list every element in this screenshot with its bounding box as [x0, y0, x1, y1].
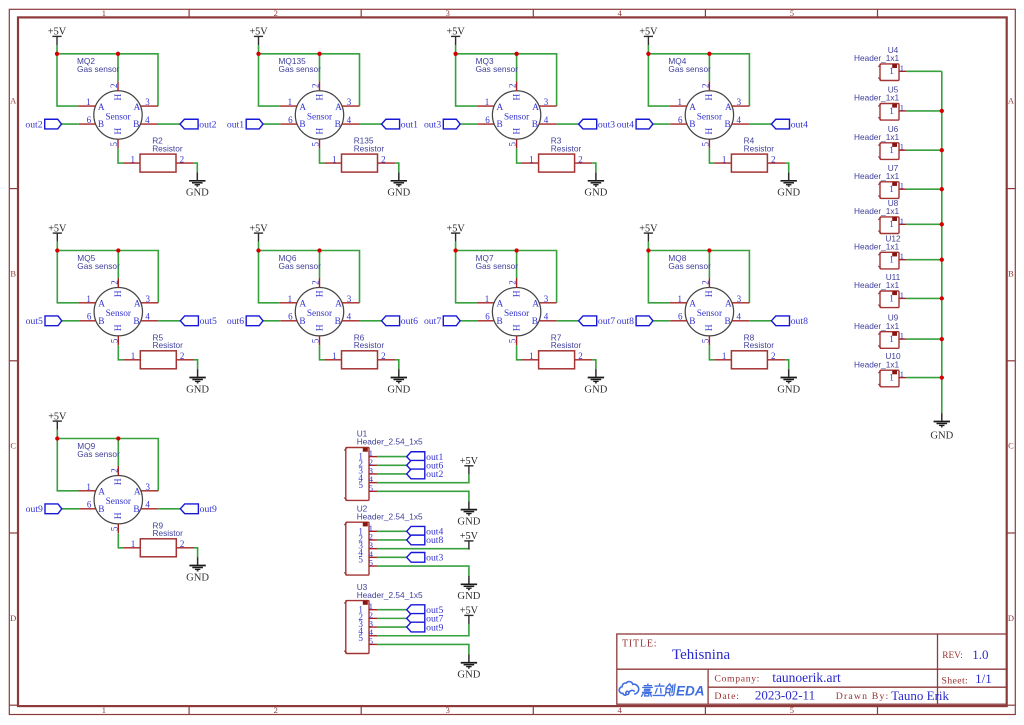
svg-text:B: B — [689, 317, 695, 327]
junction dots +5V net MQ4 — [646, 52, 711, 56]
svg-text:REV:: REV: — [942, 651, 963, 661]
svg-text:out6: out6 — [227, 316, 244, 327]
wire U2 pin 5 to GND — [377, 566, 469, 576]
net flag out7 (left) — [424, 316, 460, 327]
svg-text:B: B — [725, 317, 731, 327]
wire U2 pin 3 to +5V — [377, 548, 469, 551]
designator label MQ9 — [77, 441, 120, 459]
power symbol +5V (MQ5) — [48, 223, 67, 241]
svg-text:3: 3 — [737, 294, 742, 304]
pin 5 of U2 — [358, 555, 377, 568]
wire U9 pin 1 to GND bus — [906, 338, 941, 340]
svg-text:H: H — [114, 478, 124, 485]
svg-text:Header_1x1: Header_1x1 — [854, 359, 900, 369]
pin names of MQ4 — [689, 93, 732, 134]
svg-text:3: 3 — [737, 97, 742, 107]
gas sensor MQ6 — [279, 253, 360, 345]
svg-text:Resistor: Resistor — [551, 340, 582, 350]
wire out4 left to pin 6 — [653, 123, 670, 125]
pin numbers of MQ4 — [678, 84, 742, 147]
pin numbers of R8 — [722, 351, 776, 361]
pin 5 of U1 — [358, 480, 377, 493]
svg-text:4: 4 — [618, 705, 623, 715]
svg-text:5: 5 — [508, 141, 518, 146]
connector U3 (Header_2.54_1x5) — [344, 582, 423, 654]
gas sensor MQ9 — [77, 441, 158, 533]
svg-text:A: A — [299, 103, 306, 113]
designator label MQ135 — [279, 56, 322, 74]
svg-text:out7: out7 — [598, 316, 615, 327]
svg-text:1: 1 — [102, 8, 106, 18]
svg-text:GND: GND — [457, 591, 480, 602]
svg-text:out2: out2 — [199, 119, 216, 130]
svg-text:Sensor: Sensor — [697, 113, 723, 123]
wire out2 left to pin 6 — [62, 123, 79, 125]
svg-text:B: B — [133, 120, 139, 130]
resistor R6 — [324, 332, 395, 368]
wire +5V net to MQ6 pins 1,2,3 — [259, 242, 360, 303]
net flag out7 — [579, 316, 616, 327]
svg-text:2: 2 — [508, 280, 518, 285]
pin numbers of R6 — [332, 351, 386, 361]
wire R7 pin 2 to GND — [592, 360, 596, 369]
svg-text:Sensor: Sensor — [106, 309, 132, 319]
svg-text:4: 4 — [145, 500, 150, 510]
resistor R5 — [123, 332, 194, 368]
pin 3 of U1 — [358, 465, 377, 475]
svg-text:3: 3 — [146, 294, 151, 304]
svg-text:1: 1 — [86, 294, 91, 304]
junction dots +5V net MQ9 — [55, 436, 120, 440]
svg-text:out3: out3 — [598, 119, 615, 130]
junction dots +5V net MQ7 — [453, 248, 518, 252]
net flag out6 — [382, 316, 419, 327]
svg-text:Gas sensor: Gas sensor — [77, 449, 120, 459]
svg-text:5: 5 — [700, 141, 710, 146]
pin names of MQ2 — [98, 93, 141, 134]
wire +5V net to MQ2 pins 1,2,3 — [57, 45, 158, 106]
wire pin 4 to out2 right — [158, 123, 180, 125]
svg-text:out9: out9 — [426, 622, 443, 633]
wire U3 pin 4 to +5V — [377, 624, 469, 636]
resistor R9 — [123, 520, 194, 556]
wire U2 pin 1 to out4 — [377, 530, 407, 532]
pin 1 of U12 — [899, 259, 906, 261]
wire pin 4 to out5 right — [158, 320, 180, 322]
wire +5V net to MQ5 pins 1,2,3 — [57, 242, 158, 303]
svg-text:3: 3 — [446, 8, 450, 18]
wire R9 pin 2 to GND — [194, 548, 198, 557]
header U6 (Header_1x1) — [854, 124, 906, 160]
svg-text:GND: GND — [930, 431, 953, 442]
svg-text:Resistor: Resistor — [153, 528, 184, 538]
svg-text:Resistor: Resistor — [354, 143, 385, 153]
svg-text:A: A — [725, 103, 732, 113]
resistor R8 — [714, 332, 785, 368]
power symbol +5V (MQ8) — [639, 223, 658, 241]
svg-text:1: 1 — [678, 97, 683, 107]
svg-text:5: 5 — [109, 526, 119, 531]
gas sensor MQ8 — [668, 253, 749, 345]
svg-text:out5: out5 — [26, 316, 43, 327]
svg-text:A: A — [335, 300, 342, 310]
gas sensor MQ7 — [476, 253, 557, 345]
svg-text:1: 1 — [889, 255, 894, 265]
svg-text:A: A — [10, 95, 17, 105]
pin 1 of U2 — [358, 523, 377, 537]
net flag out3 (left) — [424, 119, 460, 130]
wire U7 pin 1 to GND bus — [906, 188, 941, 190]
svg-text:Resistor: Resistor — [354, 340, 385, 350]
connector U1 (Header_2.54_1x5) — [344, 429, 423, 501]
svg-text:out2: out2 — [25, 119, 42, 130]
svg-text:1/1: 1/1 — [975, 671, 992, 686]
power symbol +5V (U1 pin4) — [460, 456, 479, 474]
wire MQ9 pin 5 to R9 pin 1 — [118, 533, 123, 548]
wire GND bus (header column) — [941, 71, 943, 413]
svg-text:2: 2 — [771, 154, 776, 164]
svg-text:4: 4 — [544, 312, 549, 322]
pin names of MQ3 — [497, 93, 540, 134]
svg-text:out2: out2 — [426, 469, 443, 480]
svg-text:1: 1 — [102, 705, 106, 715]
wire R4 pin 2 to GND — [785, 163, 789, 172]
svg-text:B: B — [725, 120, 731, 130]
designator label R9 — [153, 520, 184, 538]
wire out6 left to pin 6 — [263, 320, 280, 322]
gas sensor MQ4 — [668, 56, 749, 148]
wire R5 pin 2 to GND — [194, 360, 198, 369]
ground symbol GND (R8 net) — [777, 369, 800, 395]
svg-text:GND: GND — [387, 188, 410, 199]
svg-text:H: H — [315, 93, 325, 100]
svg-text:Gas sensor: Gas sensor — [476, 64, 519, 74]
svg-text:A: A — [725, 300, 732, 310]
svg-text:Sensor: Sensor — [307, 113, 333, 123]
svg-text:A: A — [689, 300, 696, 310]
svg-text:H: H — [705, 93, 715, 100]
pin names of MQ5 — [98, 290, 141, 331]
svg-text:Sensor: Sensor — [105, 113, 131, 123]
svg-text:GND: GND — [186, 572, 209, 583]
svg-text:B: B — [532, 317, 538, 327]
net flag out4 — [771, 119, 808, 130]
svg-text:1: 1 — [900, 216, 904, 226]
svg-text:B: B — [133, 317, 139, 327]
svg-text:out9: out9 — [200, 504, 217, 515]
svg-text:2: 2 — [109, 468, 119, 473]
svg-text:H: H — [114, 93, 124, 100]
svg-text:5: 5 — [369, 483, 374, 493]
wire out5 left to pin 6 — [62, 320, 79, 322]
designator label R3 — [551, 136, 582, 154]
wire pin 4 to out7 right — [557, 320, 579, 322]
pin numbers of MQ7 — [485, 280, 549, 343]
pin 1 of U4 — [899, 70, 906, 72]
svg-text:1: 1 — [889, 293, 894, 303]
power symbol +5V (MQ9) — [48, 411, 67, 429]
power symbol +5V (MQ6) — [249, 223, 268, 241]
resistor R2 — [123, 136, 194, 172]
junction dots +5V net MQ8 — [646, 248, 711, 252]
svg-text:H: H — [705, 127, 715, 134]
wire MQ7 pin 5 to R7 pin 1 — [517, 345, 522, 360]
svg-text:out8: out8 — [617, 316, 634, 327]
svg-text:Drawn By:: Drawn By: — [836, 691, 890, 702]
header U5 (Header_1x1) — [854, 85, 906, 121]
pin 4 of U2 — [358, 547, 377, 558]
header U7 (Header_1x1) — [854, 163, 906, 199]
designator label R7 — [551, 332, 582, 350]
svg-text:6: 6 — [288, 115, 293, 125]
svg-text:6: 6 — [87, 312, 92, 322]
wire U2 pin 4 to out3 — [377, 556, 407, 558]
pin numbers of R2 — [131, 154, 185, 164]
pin names of MQ8 — [689, 290, 732, 331]
pin 1 of U7 — [899, 188, 906, 190]
pin numbers of MQ135 — [288, 84, 352, 147]
svg-text:H: H — [512, 290, 522, 297]
svg-text:A: A — [134, 300, 141, 310]
svg-text:3: 3 — [146, 482, 151, 492]
svg-text:H: H — [315, 290, 325, 297]
header U4 (Header_1x1) — [854, 45, 906, 81]
svg-text:out6: out6 — [401, 316, 418, 327]
svg-text:1: 1 — [678, 294, 683, 304]
svg-text:1: 1 — [889, 373, 894, 383]
svg-text:A: A — [532, 300, 539, 310]
net flag out2 (left) — [25, 119, 61, 130]
svg-text:Tauno Erik: Tauno Erik — [891, 688, 949, 703]
net flag out7 — [407, 614, 444, 625]
designator label R8 — [744, 332, 775, 350]
designator label R5 — [153, 332, 184, 350]
svg-text:GND: GND — [186, 188, 209, 199]
svg-text:5: 5 — [358, 480, 363, 490]
power symbol +5V (U2 pin3) — [460, 531, 479, 549]
pin numbers of R4 — [722, 154, 776, 164]
svg-text:4: 4 — [544, 115, 549, 125]
net flag out6 (left) — [227, 316, 263, 327]
wire U3 pin 3 to out9 — [377, 626, 407, 628]
svg-text:H: H — [512, 93, 522, 100]
svg-text:Header_1x1: Header_1x1 — [854, 171, 900, 181]
svg-text:out4: out4 — [617, 119, 634, 130]
svg-text:Sheet:: Sheet: — [942, 675, 969, 686]
svg-text:B: B — [98, 317, 104, 327]
svg-text:1: 1 — [900, 102, 904, 112]
svg-text:GND: GND — [584, 384, 607, 395]
net flag out9 — [180, 504, 217, 515]
svg-text:1: 1 — [332, 154, 337, 164]
wire U1 pin 4 to +5V — [377, 474, 469, 482]
wire U1 pin 1 to out1 — [377, 456, 407, 458]
svg-text:A: A — [134, 103, 141, 113]
svg-text:GND: GND — [457, 516, 480, 527]
wire U11 pin 1 to GND bus — [906, 297, 941, 299]
svg-text:1.0: 1.0 — [972, 647, 988, 662]
pin names of MQ135 — [299, 93, 342, 134]
svg-text:Gas sensor: Gas sensor — [668, 261, 711, 271]
wire MQ4 pin 5 to R4 pin 1 — [709, 148, 714, 163]
svg-text:out8: out8 — [791, 316, 808, 327]
net flag out3 — [579, 119, 616, 130]
wire U1 pin 5 to GND — [377, 491, 469, 501]
wire U1 pin 2 to out6 — [377, 464, 407, 466]
svg-text:1: 1 — [889, 66, 894, 76]
svg-text:1: 1 — [529, 154, 534, 164]
svg-text:Gas sensor: Gas sensor — [77, 64, 120, 74]
wire U1 pin 3 to out2 — [377, 473, 407, 475]
pin numbers of R135 — [332, 154, 386, 164]
designator label MQ6 — [279, 253, 322, 271]
svg-text:5: 5 — [358, 555, 363, 565]
pin 1 of U9 — [899, 338, 906, 340]
wire out9 left to pin 6 — [62, 508, 79, 510]
designator label R6 — [354, 332, 385, 350]
svg-text:1: 1 — [288, 294, 293, 304]
svg-text:Header_1x1: Header_1x1 — [854, 132, 900, 142]
svg-text:out5: out5 — [200, 316, 217, 327]
pin 1 of U1 — [358, 448, 377, 462]
svg-text:D: D — [10, 613, 16, 623]
wire U2 pin 2 to out8 — [377, 539, 407, 541]
net flag out5 — [407, 605, 444, 616]
svg-text:A: A — [98, 488, 105, 498]
svg-text:out9: out9 — [26, 504, 43, 515]
svg-text:Header_1x1: Header_1x1 — [854, 242, 900, 252]
svg-text:B: B — [10, 268, 16, 278]
svg-text:3: 3 — [145, 97, 150, 107]
svg-text:4: 4 — [145, 312, 150, 322]
svg-text:Sensor: Sensor — [504, 309, 530, 319]
svg-text:B: B — [497, 120, 503, 130]
svg-text:1: 1 — [900, 290, 904, 300]
svg-text:out7: out7 — [424, 316, 441, 327]
power symbol +5V (MQ135) — [249, 27, 268, 45]
header U11 (Header_1x1) — [854, 272, 906, 308]
svg-text:B: B — [335, 120, 341, 130]
svg-text:6: 6 — [678, 312, 683, 322]
ground symbol GND (R7 net) — [584, 369, 607, 395]
net flag out6 — [407, 460, 444, 471]
wire +5V net to MQ8 pins 1,2,3 — [648, 242, 749, 303]
svg-text:6: 6 — [678, 115, 683, 125]
svg-text:B: B — [98, 505, 104, 515]
pin numbers of R7 — [529, 351, 583, 361]
wire U10 pin 1 to GND bus — [906, 377, 941, 379]
pin 1 of U11 — [899, 297, 906, 299]
net flag out8 — [771, 316, 808, 327]
svg-text:4: 4 — [737, 115, 742, 125]
net flag out2 — [407, 469, 444, 480]
wire out7 left to pin 6 — [460, 320, 477, 322]
svg-text:out8: out8 — [426, 535, 443, 546]
svg-text:H: H — [114, 290, 124, 297]
wire R2 pin 2 to GND — [194, 163, 198, 172]
svg-text:Sensor: Sensor — [504, 113, 530, 123]
wire MQ2 pin 5 to R2 pin 1 — [118, 148, 123, 163]
pin names of MQ6 — [299, 290, 342, 331]
pin 4 of U3 — [358, 626, 377, 637]
svg-text:A: A — [335, 103, 342, 113]
gas sensor MQ135 — [279, 56, 360, 148]
svg-text:Resistor: Resistor — [744, 340, 775, 350]
pin 2 of U2 — [358, 531, 377, 543]
svg-text:4: 4 — [347, 312, 352, 322]
svg-text:1: 1 — [900, 369, 904, 379]
pin numbers of R5 — [131, 351, 185, 361]
junction dots +5V net MQ6 — [256, 248, 321, 252]
wire U3 pin 1 to out5 — [377, 609, 407, 611]
svg-text:6: 6 — [288, 312, 293, 322]
gas sensor MQ3 — [476, 56, 557, 148]
svg-text:A: A — [689, 103, 696, 113]
wire pin 4 to out6 right — [360, 320, 382, 322]
svg-text:2023-02-11: 2023-02-11 — [755, 688, 815, 703]
svg-text:2: 2 — [578, 154, 583, 164]
svg-text:2: 2 — [700, 280, 710, 285]
svg-text:1: 1 — [900, 142, 904, 152]
pin 1 of U10 — [899, 377, 906, 379]
ground symbol GND (R4 net) — [777, 172, 800, 198]
svg-text:A: A — [98, 103, 105, 113]
ground symbol GND (U2 pin5) — [457, 576, 480, 602]
ground symbol GND (R9 net) — [186, 557, 209, 583]
svg-text:A: A — [134, 488, 141, 498]
svg-text:2: 2 — [109, 280, 119, 285]
svg-text:6: 6 — [485, 115, 490, 125]
wire MQ8 pin 5 to R8 pin 1 — [709, 345, 714, 360]
designator label MQ7 — [476, 253, 519, 271]
svg-text:2: 2 — [700, 84, 710, 89]
svg-text:1: 1 — [900, 331, 904, 341]
svg-text:5: 5 — [311, 338, 321, 343]
svg-text:5: 5 — [311, 141, 321, 146]
ground symbol GND (R135 net) — [387, 172, 410, 198]
svg-text:1: 1 — [131, 539, 136, 549]
ground symbol GND (U3 pin5) — [457, 654, 480, 680]
wire out1 left to pin 6 — [263, 123, 280, 125]
wire pin 4 to out9 right — [158, 508, 180, 510]
header U9 (Header_1x1) — [854, 313, 906, 349]
wire U4 pin 1 to GND bus — [906, 70, 941, 72]
ground symbol GND (R6 net) — [387, 369, 410, 395]
net flag out2 — [180, 119, 217, 130]
header U8 (Header_1x1) — [854, 198, 906, 234]
net flag out4 (left) — [617, 119, 653, 130]
svg-text:6: 6 — [87, 115, 92, 125]
pin numbers of MQ8 — [678, 280, 742, 343]
wire MQ135 pin 5 to R135 pin 1 — [320, 148, 325, 163]
ground symbol GND (R3 net) — [584, 172, 607, 198]
wire out3 left to pin 6 — [460, 123, 477, 125]
pin numbers of MQ9 — [86, 468, 150, 531]
pin 1 of U8 — [899, 223, 906, 225]
svg-text:out3: out3 — [424, 119, 441, 130]
svg-text:H: H — [512, 127, 522, 134]
svg-text:H: H — [705, 290, 715, 297]
pin 1 of U6 — [899, 149, 906, 151]
svg-text:3: 3 — [544, 294, 549, 304]
wire pin 4 to out4 right — [749, 123, 771, 125]
svg-text:2: 2 — [180, 539, 185, 549]
svg-text:1: 1 — [722, 351, 727, 361]
pin 1 of U5 — [899, 110, 906, 112]
svg-text:B: B — [497, 317, 503, 327]
junction dots +5V net MQ3 — [453, 52, 518, 56]
pin numbers of MQ5 — [86, 280, 150, 343]
